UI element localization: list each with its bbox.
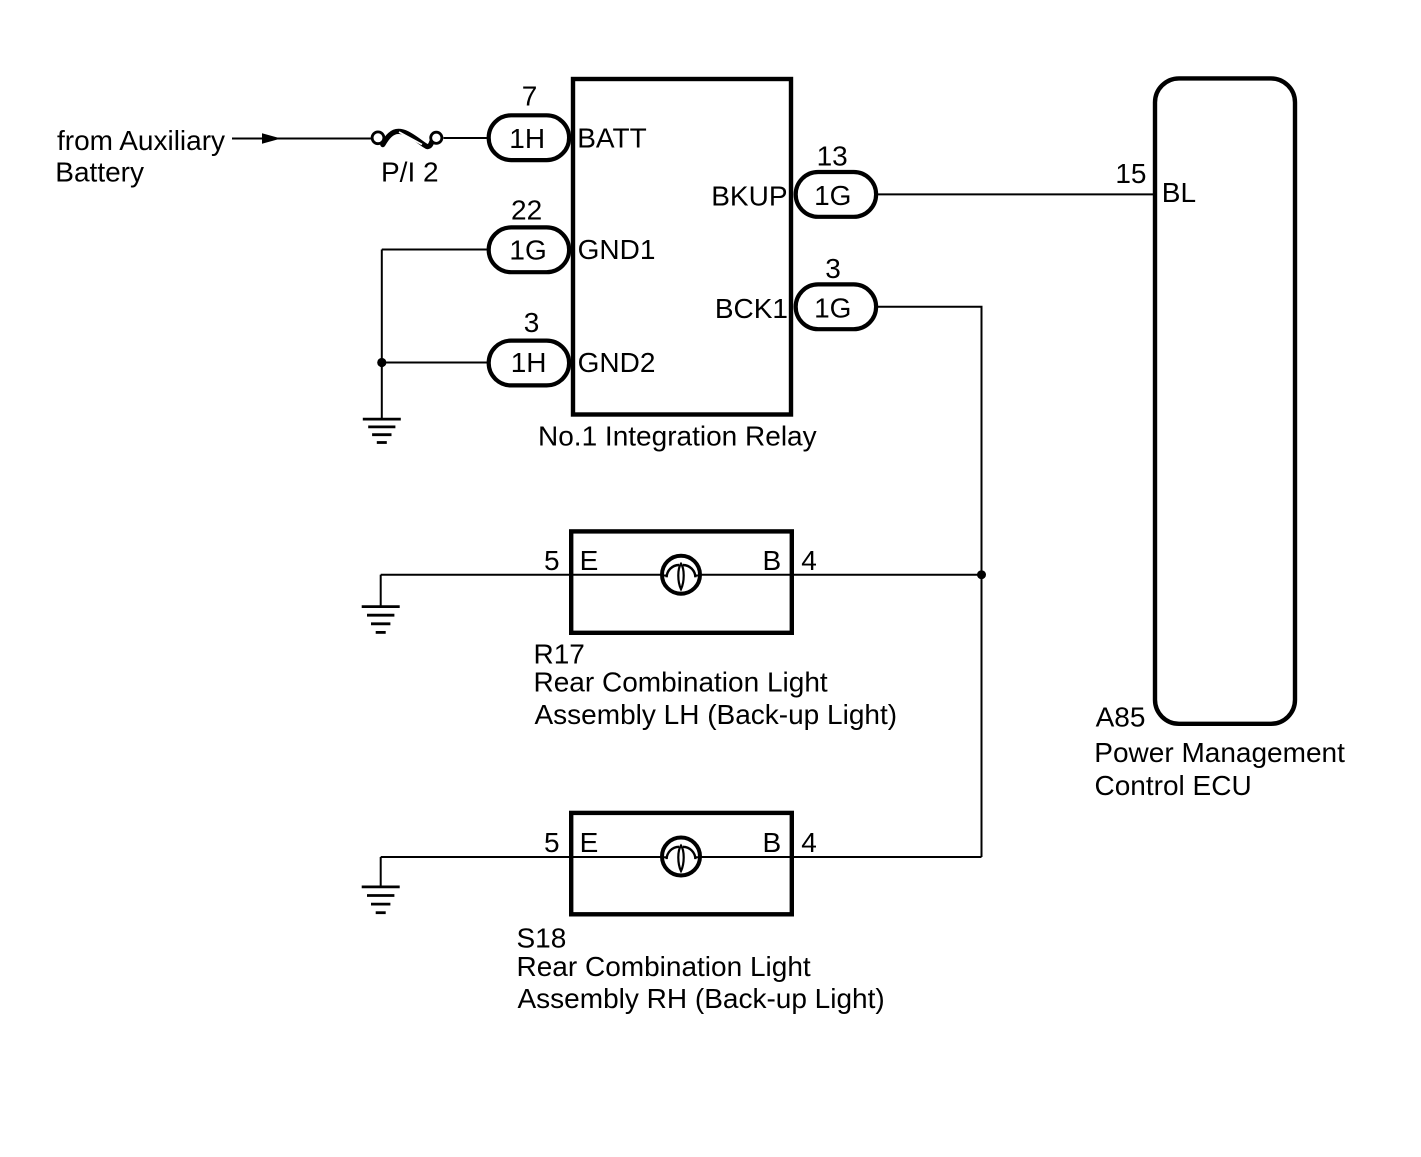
component label: S18 Rear Combination Light Assembly RH [517, 922, 885, 1014]
svg-text:4: 4 [801, 827, 817, 858]
wire: ground drop vertical [381, 250, 383, 420]
connector pill 1H pin 3 (GND2) [489, 341, 569, 386]
connector pill 1G pin 13 (BKUP) [796, 172, 876, 217]
svg-text:1G: 1G [509, 235, 546, 266]
ECU A85: Power Management Control ECU box [1155, 78, 1295, 723]
ground: relay ground symbol [363, 419, 401, 442]
svg-text:1G: 1G [814, 180, 851, 211]
svg-text:7: 7 [522, 81, 538, 112]
svg-text:from Auxiliary: from Auxiliary [57, 125, 225, 156]
svg-text:5: 5 [544, 545, 560, 576]
wire: BKUP to ECU pin 15 [878, 193, 1154, 195]
svg-text:5: 5 [544, 827, 560, 858]
fusible link P/I 2 [372, 131, 442, 147]
svg-text:BCK1: BCK1 [715, 293, 788, 324]
wire: from Auxiliary Battery to fusible link [232, 138, 371, 140]
ground: S18 ground symbol [362, 887, 400, 913]
svg-text:Assembly RH (Back-up Light): Assembly RH (Back-up Light) [518, 983, 885, 1014]
connector pill 1G pin 22 (GND1) [489, 227, 569, 272]
svg-text:13: 13 [817, 141, 848, 172]
svg-text:Assembly LH (Back-up Light): Assembly LH (Back-up Light) [535, 699, 898, 730]
svg-text:B: B [763, 545, 782, 576]
connector pill 1H pin 7 (BATT) [489, 115, 569, 160]
svg-text:1H: 1H [509, 123, 545, 154]
component label: R17 Rear Combination Light Assembly LH [534, 639, 898, 730]
svg-text:3: 3 [524, 307, 540, 338]
connector pill 1G pin 3 (BCK1) [796, 284, 876, 329]
svg-text:Rear Combination Light: Rear Combination Light [534, 667, 828, 698]
wire: GND1 to ground [382, 249, 489, 251]
wire: BCK1 to back-up lights [878, 307, 982, 857]
svg-text:E: E [580, 827, 599, 858]
component label: A85 Power Management Control ECU [1094, 702, 1345, 802]
wire: left ground to S18 to vertical feed [381, 856, 982, 858]
svg-text:Rear Combination Light: Rear Combination Light [517, 951, 811, 982]
svg-text:4: 4 [801, 545, 817, 576]
svg-text:GND1: GND1 [578, 234, 656, 265]
wire: fusible link to connector 1H [444, 137, 490, 139]
wire: left ground to R17 to junction [381, 574, 982, 576]
svg-text:BKUP: BKUP [711, 181, 787, 212]
junction: GND1/GND2 tie point [377, 358, 386, 367]
svg-text:1H: 1H [511, 347, 547, 378]
wire: R17 ground drop [380, 575, 382, 607]
svg-text:15: 15 [1115, 158, 1146, 189]
bulb: R17 back-up light bulb [662, 556, 700, 594]
junction: back-up light feed tie point [977, 570, 986, 579]
svg-text:1G: 1G [814, 293, 851, 324]
svg-text:E: E [580, 545, 599, 576]
net label: from Auxiliary Battery [55, 125, 225, 188]
svg-text:B: B [763, 827, 782, 858]
svg-text:No.1 Integration Relay: No.1 Integration Relay [538, 420, 817, 451]
relay U1: No.1 Integration Relay box [573, 79, 791, 415]
svg-text:Battery: Battery [55, 157, 144, 188]
svg-text:Power Management: Power Management [1094, 737, 1345, 768]
svg-text:P/I 2: P/I 2 [381, 157, 439, 188]
svg-text:BATT: BATT [577, 123, 646, 154]
wire: GND2 to ground [382, 362, 489, 364]
svg-text:R17: R17 [534, 639, 585, 670]
svg-text:3: 3 [825, 253, 841, 284]
svg-text:Control ECU: Control ECU [1095, 770, 1252, 801]
arrow: power flow direction [262, 133, 281, 144]
svg-text:S18: S18 [517, 922, 567, 953]
svg-text:22: 22 [511, 195, 542, 226]
lamp S18: Rear Combination Light Assembly RH box [571, 813, 792, 914]
svg-text:GND2: GND2 [578, 347, 656, 378]
svg-text:BL: BL [1162, 177, 1196, 208]
wire: S18 ground drop [380, 857, 382, 887]
ground: R17 ground symbol [362, 607, 400, 633]
lamp R17: Rear Combination Light Assembly LH box [571, 531, 792, 632]
svg-text:A85: A85 [1096, 702, 1146, 733]
bulb: S18 back-up light bulb [662, 838, 700, 876]
